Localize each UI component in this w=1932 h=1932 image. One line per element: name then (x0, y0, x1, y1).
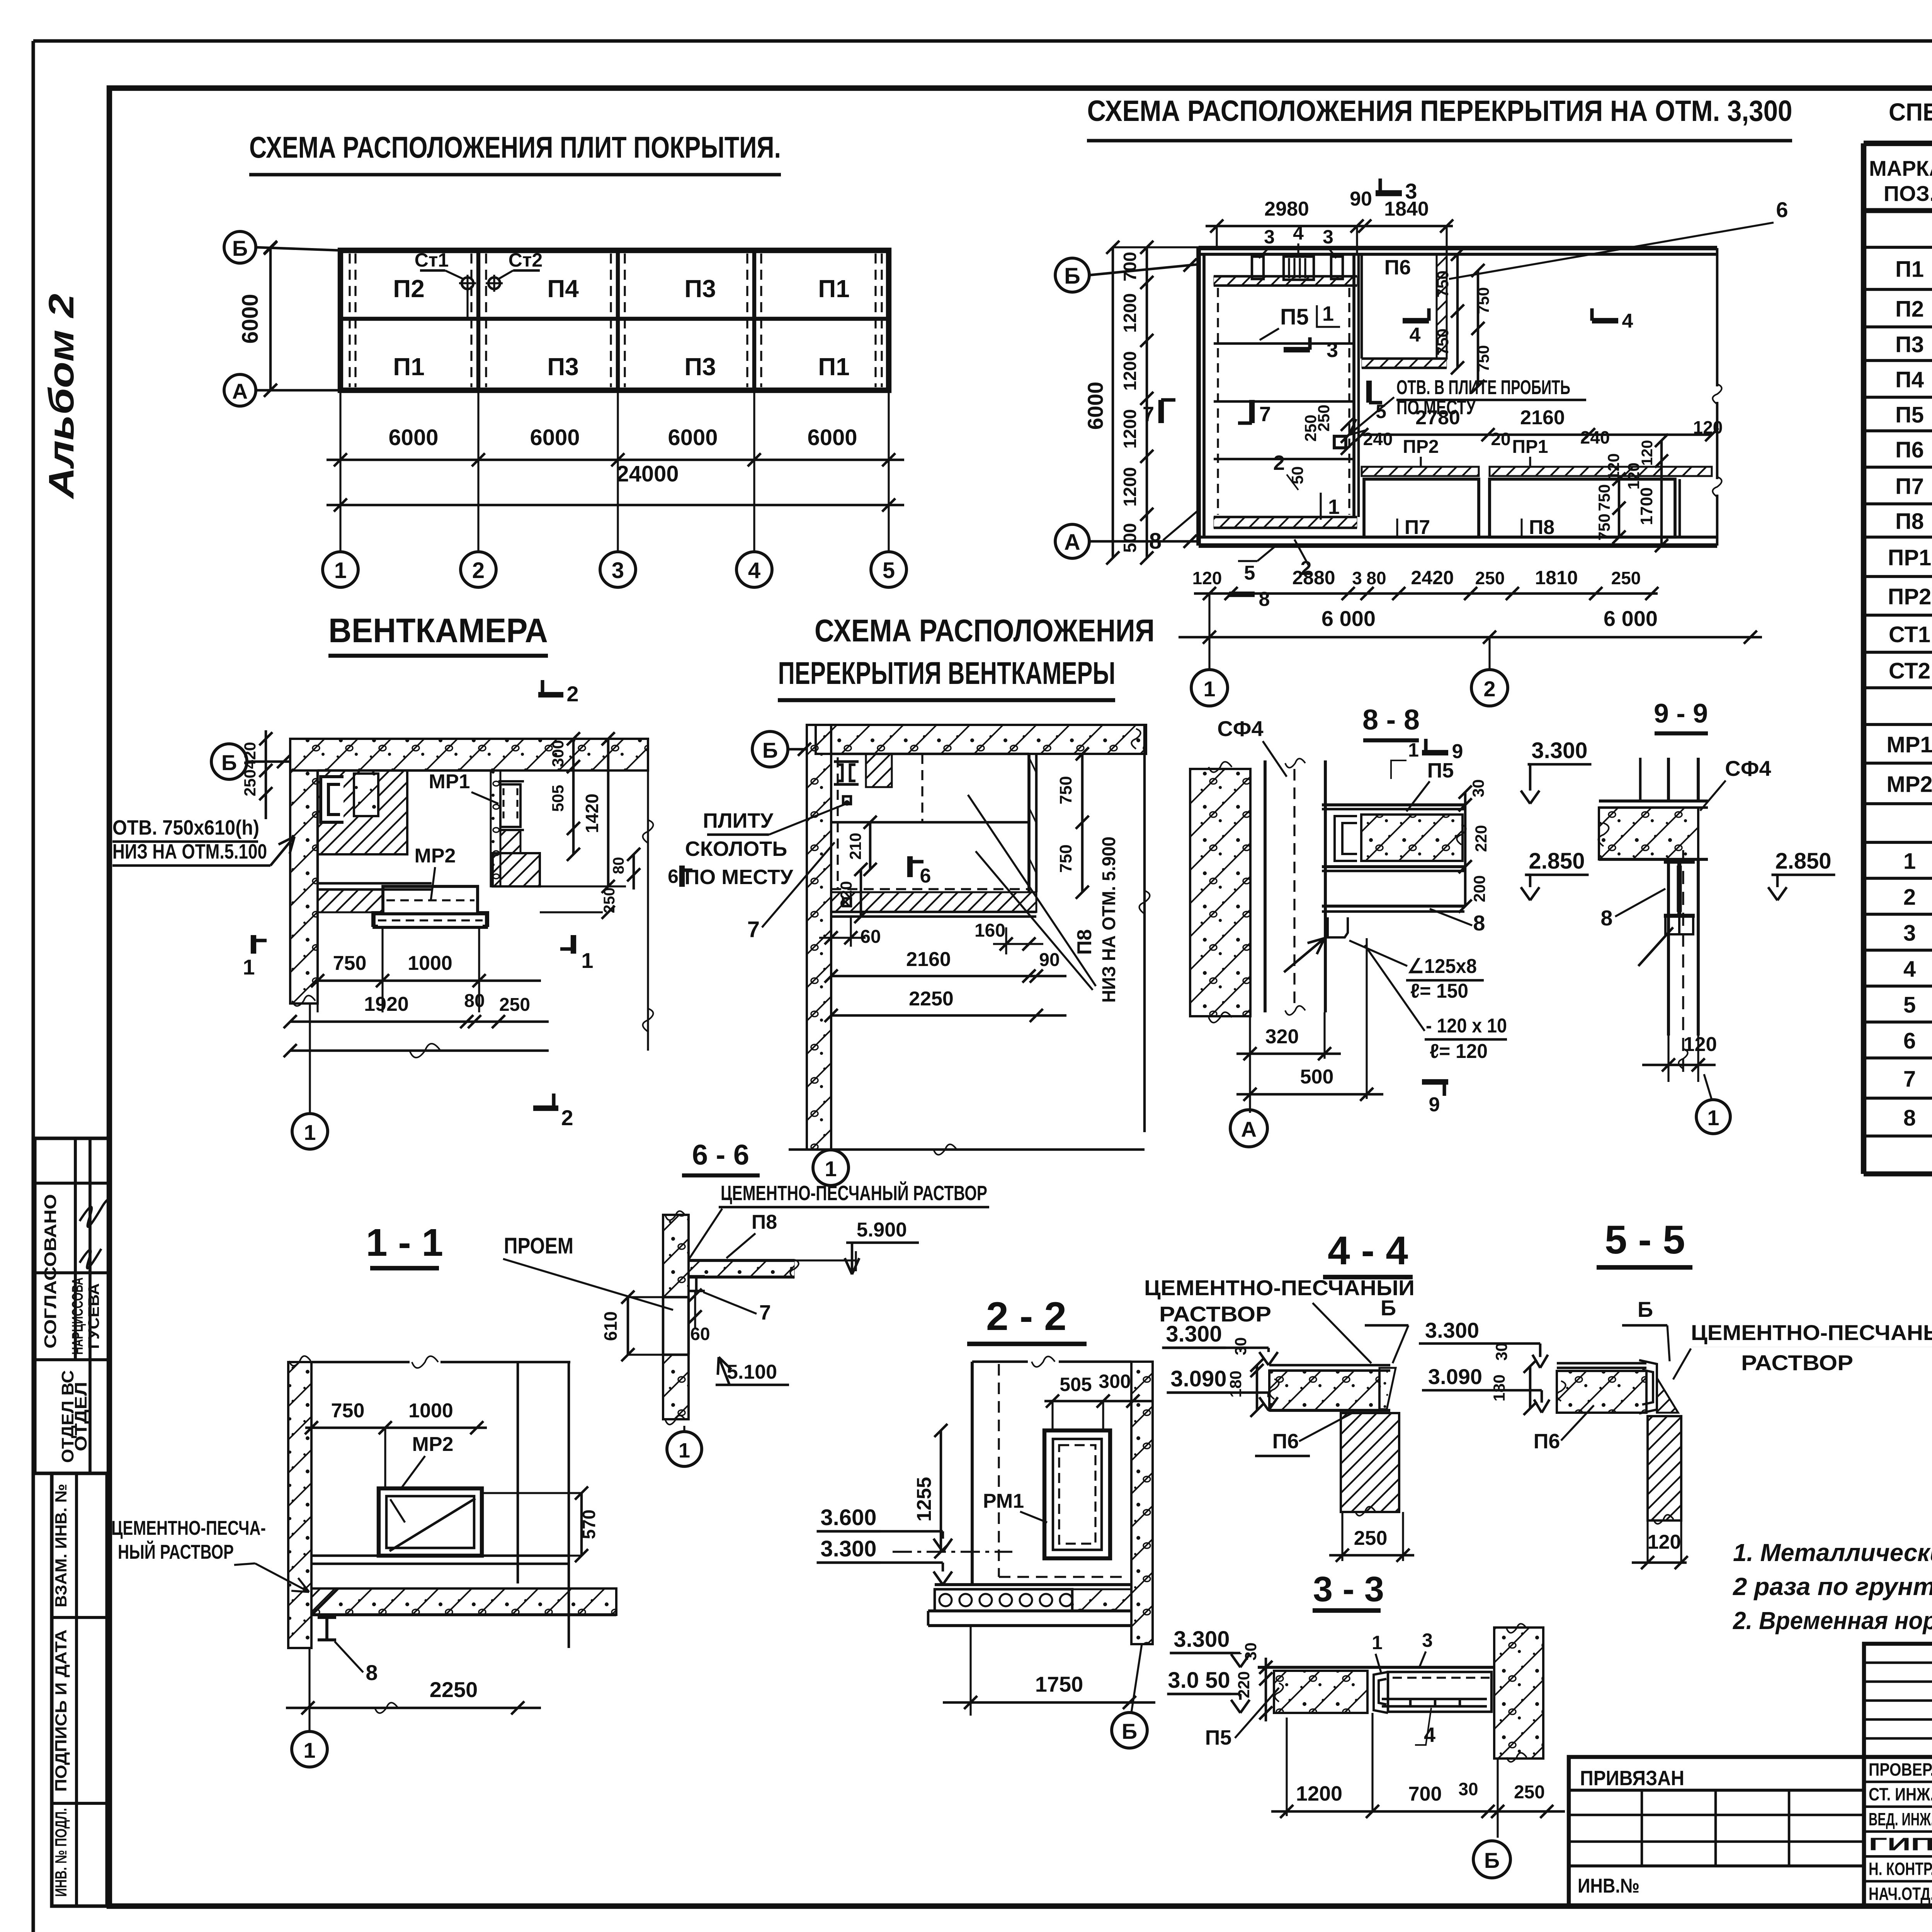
ventkamera section marks 1 (251, 935, 256, 954)
3-3 plate P17 (1388, 1672, 1492, 1712)
svg-text:250: 250 (601, 888, 618, 913)
svg-text:2: 2 (1483, 677, 1495, 701)
svg-text:180: 180 (1490, 1374, 1508, 1401)
svg-text:П5: П5 (1280, 304, 1309, 330)
svg-text:П5: П5 (1895, 403, 1924, 428)
9-9 dim 120 (1642, 1064, 1716, 1066)
svg-text:8 - 8: 8 - 8 (1362, 704, 1420, 736)
svg-text:6: 6 (920, 865, 931, 887)
svg-text:7: 7 (1143, 403, 1154, 426)
svg-text:1420: 1420 (582, 794, 602, 833)
svg-text:4: 4 (748, 558, 760, 583)
svg-text:3: 3 (1422, 1629, 1433, 1651)
svg-text:3.090: 3.090 (1428, 1364, 1482, 1389)
svg-text:2 раза по грунтовке ГФ-0119: 2 раза по грунтовке ГФ-0119 (ГООТ 23343-… (1733, 1573, 1932, 1600)
svg-text:П7: П7 (1895, 474, 1924, 499)
svg-text:П8: П8 (1895, 509, 1924, 534)
plan2 section flag 4 right (1592, 318, 1618, 323)
svg-text:320: 320 (1265, 1026, 1299, 1048)
svg-text:2. Временная нормативная наг: 2. Временная нормативная нагрузка на пли… (1733, 1607, 1932, 1634)
svg-text:2250: 2250 (909, 988, 954, 1010)
svg-text:2: 2 (561, 1105, 573, 1130)
svg-text:2160: 2160 (906, 948, 951, 971)
svg-text:80: 80 (1366, 568, 1386, 588)
9-9 column below (1667, 859, 1670, 1036)
8-8 flag 9 bottom (1422, 1079, 1448, 1085)
5-5 slab (1557, 1362, 1646, 1365)
svg-text:НЫЙ РАСТВОР: НЫЙ РАСТВОР (118, 1541, 234, 1563)
ventkamera room edges (318, 769, 493, 772)
ventkamera left dims 420 250 (265, 730, 267, 819)
svg-text:1: 1 (1903, 849, 1916, 874)
svg-text:ЦЕМЕНТНО-ПЕСЧАНЫЙ: ЦЕМЕНТНО-ПЕСЧАНЫЙ (1691, 1320, 1932, 1345)
2-2 axis dashdot (893, 1551, 1012, 1553)
2-2 left edge (971, 1362, 974, 1585)
svg-text:ПР1: ПР1 (1512, 437, 1548, 457)
plan2 grid circle 2 (1471, 670, 1508, 706)
plan2 grid circle 1 (1191, 670, 1228, 706)
svg-text:2250: 2250 (430, 1677, 478, 1702)
ventperekr P8 leaders (968, 795, 1096, 986)
svg-text:А: А (1064, 530, 1080, 555)
2-2 dim 1750 (943, 1701, 1155, 1704)
2-2 axis circle B (1112, 1713, 1147, 1748)
plan2 room P5 top band (1214, 275, 1357, 278)
svg-text:120: 120 (1192, 568, 1222, 588)
ventkamera MP2 plate (383, 886, 478, 914)
svg-text:240: 240 (1580, 427, 1610, 447)
svg-text:30: 30 (1231, 1337, 1250, 1355)
ventkamera corner block right (493, 853, 540, 886)
svg-text:П5: П5 (1205, 1726, 1232, 1749)
3-3 dim chain 1200 700 30 250 (1271, 1810, 1565, 1813)
svg-text:П6: П6 (1272, 1430, 1299, 1453)
svg-text:1: 1 (304, 1120, 316, 1145)
4-4 dim 250 (1329, 1554, 1414, 1557)
svg-text:3.300: 3.300 (1531, 738, 1587, 763)
svg-text:3: 3 (1903, 921, 1916, 946)
plan2 axis circle A (1055, 524, 1089, 558)
svg-text:СТ1: СТ1 (1889, 622, 1930, 647)
svg-text:1810: 1810 (1535, 567, 1578, 588)
ventperekr dim 2250 (831, 1014, 1066, 1017)
svg-text:5: 5 (1244, 562, 1255, 584)
svg-text:5.900: 5.900 (857, 1219, 907, 1241)
svg-text:1: 1 (1408, 739, 1419, 761)
ventperekr left wall (807, 725, 831, 1150)
svg-text:570: 570 (579, 1510, 599, 1539)
ventkamera right wall strip (491, 770, 500, 886)
ventkamera axis circle B (211, 744, 247, 779)
svg-text:П4: П4 (1895, 367, 1924, 393)
3-3 right wall band (1494, 1628, 1543, 1759)
svg-text:НИЗ НА ОТМ.5.100: НИЗ НА ОТМ.5.100 (112, 840, 267, 863)
svg-text:120: 120 (1684, 1033, 1717, 1056)
plan1 dim 24000 (327, 504, 904, 507)
plan2 room P5 joint dashes (1217, 288, 1219, 515)
svg-text:СПЕЦИФИКАЦИЯ К СХЕМАМ РАСПО: СПЕЦИФИКАЦИЯ К СХЕМАМ РАСПОЛОЖЕНИЯ ПЛИТ … (1889, 98, 1932, 126)
svg-text:30: 30 (1242, 1643, 1260, 1661)
svg-text:СХЕМА РАСПОЛОЖЕНИЯ: СХЕМА РАСПОЛОЖЕНИЯ (815, 613, 1155, 648)
plan1 dim row 6000x4 (327, 459, 904, 461)
svg-text:Ст1: Ст1 (415, 249, 449, 271)
svg-text:ПОЗ.: ПОЗ. (1884, 181, 1932, 206)
4-4 slab (1269, 1364, 1390, 1367)
1-1 window dim 570 (580, 1493, 583, 1556)
svg-text:СКОЛОТЬ: СКОЛОТЬ (685, 837, 787, 861)
ventkamera bottom edge lines (318, 882, 432, 885)
6-6 I-beam (688, 1275, 705, 1278)
ventperekr flag 6 (907, 856, 913, 877)
ventperekr bottom band (831, 892, 1036, 912)
svg-text:ИНВ.№: ИНВ.№ (1578, 1875, 1639, 1897)
svg-text:1: 1 (1322, 302, 1334, 325)
ventkamera right ext line (647, 739, 649, 1051)
svg-text:5: 5 (883, 558, 895, 583)
svg-text:1. Металлические конструкции: 1. Металлические конструкции окрасить ма… (1733, 1539, 1932, 1566)
svg-text:1000: 1000 (408, 1400, 453, 1422)
svg-text:3: 3 (1352, 568, 1362, 588)
plan2 section flag 4 left (1403, 318, 1429, 323)
ventkamera big corner block (318, 770, 407, 854)
svg-text:9 - 9: 9 - 9 (1654, 698, 1708, 728)
svg-text:750: 750 (1595, 514, 1613, 541)
8-8 axis circle A (1230, 1110, 1267, 1147)
svg-text:700: 700 (1408, 1783, 1442, 1805)
ventkamera left wall (290, 770, 318, 1003)
ventkamera dims 1920 80 250 (290, 1020, 549, 1023)
svg-text:120: 120 (1693, 417, 1723, 437)
2-2 floor slab (935, 1583, 1131, 1586)
svg-text:9: 9 (1452, 740, 1463, 763)
svg-text:П3: П3 (684, 353, 716, 381)
svg-text:6: 6 (668, 866, 679, 887)
svg-text:Б: Б (1484, 1848, 1500, 1872)
svg-text:ВЕНТКАМЕРА: ВЕНТКАМЕРА (328, 611, 548, 650)
svg-text:ЦЕМЕНТНО-ПЕСЧА-: ЦЕМЕНТНО-ПЕСЧА- (111, 1517, 266, 1539)
svg-text:90: 90 (1039, 950, 1060, 970)
1-1 mortar wedge (311, 1588, 338, 1615)
svg-text:6000: 6000 (668, 425, 718, 450)
5-5 wall below (1648, 1416, 1681, 1520)
svg-text:ℓ= 120: ℓ= 120 (1430, 1040, 1488, 1063)
svg-text:ПО МЕСТУ: ПО МЕСТУ (684, 866, 793, 889)
9-9 I-beam (1664, 860, 1695, 864)
svg-text:П8: П8 (1073, 929, 1096, 955)
svg-text:МР2: МР2 (1886, 772, 1932, 797)
svg-text:6 - 6: 6 - 6 (692, 1139, 749, 1171)
svg-text:4: 4 (1622, 310, 1633, 332)
svg-text:ПОДПИСЬ И ДАТА: ПОДПИСЬ И ДАТА (52, 1629, 70, 1792)
svg-text:1: 1 (334, 558, 347, 583)
svg-text:750: 750 (1056, 776, 1075, 804)
svg-text:1700: 1700 (1637, 487, 1656, 525)
1-1 dim 2250 (286, 1707, 541, 1709)
plan1 plate joints dashed (349, 253, 350, 387)
svg-text:3.300: 3.300 (1425, 1318, 1479, 1342)
9-9 bracket (1665, 916, 1693, 934)
8-8 P5 channel (1335, 816, 1357, 861)
svg-text:3.600: 3.600 (820, 1505, 876, 1530)
svg-text:1: 1 (679, 1439, 690, 1462)
plan2 rooms P7 P8 (1364, 479, 1479, 537)
svg-text:5: 5 (1903, 993, 1916, 1018)
svg-text:СТ2: СТ2 (1889, 658, 1930, 684)
svg-text:6000: 6000 (807, 425, 857, 450)
plan1 bay dividers (476, 250, 480, 390)
2-2 top squiggle line (972, 1361, 1028, 1363)
1-1 top line (311, 1361, 410, 1364)
svg-text:6000: 6000 (1083, 382, 1107, 430)
svg-text:300: 300 (549, 740, 567, 767)
svg-text:ОТВ. 750х610(h): ОТВ. 750х610(h) (112, 816, 259, 839)
2-2 slab bottom (927, 1611, 930, 1626)
svg-text:1 - 1: 1 - 1 (366, 1221, 443, 1264)
svg-text:П1: П1 (1895, 257, 1924, 282)
plan2 otv opening (1334, 436, 1346, 448)
svg-text:120: 120 (1604, 453, 1622, 480)
svg-text:1: 1 (1372, 1632, 1383, 1653)
ventperekr grid circle 1 (813, 1150, 849, 1185)
8-8 column lines (1264, 760, 1267, 1012)
2-2 window RM1 (1044, 1430, 1110, 1558)
1-1 floor slab (311, 1588, 616, 1615)
svg-text:8: 8 (1600, 906, 1612, 930)
svg-text:7: 7 (1259, 403, 1271, 426)
plan1 axis circle A (224, 374, 256, 406)
svg-text:1200: 1200 (1120, 467, 1140, 507)
8-8 bottom slab (1322, 905, 1464, 908)
svg-text:60: 60 (690, 1324, 710, 1344)
svg-text:2: 2 (472, 558, 485, 583)
svg-text:СФ4: СФ4 (1725, 756, 1771, 781)
svg-text:250: 250 (1354, 1527, 1388, 1549)
ventperekr room edges (831, 753, 1029, 755)
svg-text:6000: 6000 (238, 294, 263, 344)
svg-text:750: 750 (331, 1400, 365, 1422)
svg-text:1: 1 (303, 1738, 315, 1762)
8-8 dim 320 (1236, 1053, 1341, 1055)
svg-text:24000: 24000 (616, 461, 679, 486)
svg-text:1200: 1200 (1120, 351, 1140, 391)
svg-text:2420: 2420 (1411, 567, 1454, 588)
svg-text:П6: П6 (1534, 1430, 1560, 1453)
svg-text:РМ1: РМ1 (983, 1490, 1024, 1512)
svg-text:8: 8 (1473, 911, 1485, 935)
svg-text:СОГЛАСОВАНО: СОГЛАСОВАНО (41, 1194, 60, 1349)
svg-text:80: 80 (610, 857, 627, 874)
svg-text:4 - 4: 4 - 4 (1328, 1228, 1408, 1273)
svg-text:20: 20 (1491, 429, 1510, 449)
svg-text:ГИП: ГИП (1869, 1834, 1932, 1854)
left stamp signature squiggle (80, 1199, 109, 1226)
svg-text:А: А (1241, 1117, 1257, 1141)
ventkamera section mark 6 (679, 866, 685, 887)
6-6 grid circle 1 (683, 1426, 685, 1432)
left stamp lower box (52, 1473, 107, 1906)
ventperekr MP channel (834, 762, 859, 784)
svg-text:5 - 5: 5 - 5 (1605, 1218, 1685, 1262)
6-6 wall upper (663, 1215, 689, 1297)
svg-text:180: 180 (1226, 1371, 1245, 1398)
ventkamera concrete inset (354, 774, 378, 816)
6-6 wall lower (663, 1355, 689, 1419)
svg-text:П2: П2 (393, 275, 425, 303)
svg-text:2.850: 2.850 (1529, 849, 1585, 874)
6-6 wall proem gap (662, 1297, 665, 1355)
plan2 right dims 750 750 (1618, 479, 1621, 537)
svg-text:Б: Б (221, 750, 237, 775)
svg-text:8: 8 (366, 1660, 378, 1685)
svg-text:П4: П4 (547, 275, 579, 303)
plan2 bottom wall (1199, 536, 1717, 539)
svg-text:5: 5 (1376, 401, 1386, 422)
svg-text:П8: П8 (752, 1211, 777, 1233)
svg-text:505: 505 (549, 785, 567, 812)
svg-text:ВЕД. ИНЖ.: ВЕД. ИНЖ. (1869, 1809, 1932, 1829)
svg-text:ГУСЕВА: ГУСЕВА (85, 1283, 102, 1349)
svg-text:420: 420 (241, 742, 259, 769)
svg-text:3.090: 3.090 (1170, 1366, 1226, 1391)
ventkamera protruding plate (374, 914, 486, 927)
svg-text:610: 610 (600, 1311, 621, 1341)
9-9 column top (1667, 758, 1670, 801)
svg-text:НИЗ НА ОТМ. 5.900: НИЗ НА ОТМ. 5.900 (1099, 837, 1119, 1003)
plan2 room P5 joints (1214, 342, 1354, 345)
plan2 section 7-7 cut flags (1158, 400, 1164, 423)
svg-text:ПЛИТУ: ПЛИТУ (703, 809, 774, 832)
1-1 wall band (288, 1362, 311, 1648)
svg-text:3: 3 (1323, 226, 1333, 248)
4-4 wall below (1341, 1413, 1399, 1512)
ventperekr axis circle B (752, 731, 788, 767)
svg-text:120: 120 (1639, 440, 1656, 466)
8-8 wall band (1190, 769, 1250, 1016)
svg-text:1: 1 (581, 948, 593, 973)
plan2 dim 6000 6000 bottom (1179, 636, 1762, 639)
svg-text:П2: П2 (1895, 297, 1924, 322)
svg-text:1200: 1200 (1120, 293, 1140, 333)
svg-text:2: 2 (1903, 885, 1916, 910)
svg-text:750: 750 (1056, 844, 1075, 872)
svg-text:1920: 1920 (364, 993, 409, 1015)
svg-text:7: 7 (747, 917, 760, 942)
svg-text:РАСТВОР: РАСТВОР (1741, 1350, 1853, 1375)
8-8 P5 hatch block (1361, 815, 1463, 861)
svg-text:750: 750 (1474, 287, 1492, 314)
privyazan block (1569, 1757, 1864, 1906)
ventkamera MP1 frame (500, 784, 520, 827)
svg-text:750: 750 (1595, 484, 1613, 511)
6-6 dim 60 (694, 1290, 696, 1328)
plan2 room P6 (1361, 254, 1363, 359)
2-2 right wall band (1131, 1362, 1153, 1644)
svg-text:60: 60 (860, 927, 881, 947)
svg-text:30: 30 (1492, 1343, 1510, 1361)
ventkamera MP1 lower hatch (500, 830, 520, 853)
plan2 building edge break (1716, 248, 1719, 386)
3-3 channel (1374, 1672, 1388, 1713)
svg-text:220: 220 (1472, 825, 1490, 852)
ventkamera right dims 80 250 (633, 854, 635, 889)
8-8 dim 500 (1236, 1093, 1383, 1096)
plan2 section flag 3 inner (1284, 347, 1310, 352)
9-9 slab bottom line (1599, 858, 1708, 861)
ventperekr anchors (843, 796, 851, 804)
title block small grid (1864, 1644, 1932, 1757)
8-8 corner bracket (1328, 917, 1348, 937)
svg-text:2: 2 (566, 682, 578, 706)
svg-text:8: 8 (1149, 529, 1162, 554)
left stamp upper box (35, 1138, 109, 1473)
svg-text:250: 250 (1514, 1782, 1545, 1803)
svg-text:1: 1 (1328, 495, 1340, 519)
svg-text:П5: П5 (1427, 759, 1454, 782)
svg-text:250: 250 (1475, 568, 1505, 588)
plan2 axis circle B (1055, 258, 1089, 292)
8-8 top slab (1322, 803, 1464, 806)
ventkamera grid circle 1 (292, 1114, 328, 1149)
svg-text:Б: Б (1064, 264, 1080, 289)
svg-text:3: 3 (1327, 338, 1338, 362)
svg-text:Н. КОНТР.: Н. КОНТР. (1869, 1859, 1932, 1879)
svg-text:6: 6 (1776, 197, 1788, 222)
8-8 flag 9 top (1422, 750, 1448, 755)
svg-text:3.0 50: 3.0 50 (1168, 1668, 1230, 1693)
svg-text:Б: Б (1122, 1719, 1137, 1743)
8-8 dims 30 220 200 (1464, 792, 1467, 805)
svg-text:2 - 2: 2 - 2 (986, 1294, 1066, 1339)
svg-text:30: 30 (1469, 779, 1487, 798)
svg-text:3.300: 3.300 (1166, 1321, 1222, 1347)
9-9 grid circle 1 (1696, 1100, 1730, 1134)
plan2 P6 right dims 750 (1456, 254, 1459, 368)
svg-text:ВЗАМ. ИНВ. №: ВЗАМ. ИНВ. № (52, 1484, 70, 1607)
8-8 slab mid lines (1322, 865, 1464, 868)
ventperekr room lines (1027, 754, 1031, 892)
svg-text:- 120 х 10: - 120 х 10 (1426, 1015, 1507, 1037)
plan2 right dims 120 1700 (1660, 440, 1663, 546)
svg-text:ПР1: ПР1 (1888, 545, 1932, 570)
ventperekr right boundary (1143, 725, 1146, 1132)
1-1 right verticals (517, 1362, 519, 1583)
plan1 extension lines down (339, 390, 341, 552)
svg-text:Альбом 2: Альбом 2 (42, 294, 81, 499)
svg-text:П3: П3 (547, 353, 579, 381)
svg-text:П3: П3 (1895, 332, 1924, 357)
1-1 window frame (379, 1488, 482, 1556)
svg-text:750: 750 (1474, 345, 1492, 372)
svg-text:2780: 2780 (1415, 406, 1460, 429)
4-4 mortar wedge (1379, 1368, 1396, 1409)
plan2 top dim chain 2980 90 1840 (1206, 225, 1453, 228)
svg-text:210: 210 (846, 833, 864, 860)
svg-text:1: 1 (243, 955, 255, 979)
plan2 dim 6000 vertical (1112, 247, 1114, 558)
3-3 axis circle B (1473, 1841, 1510, 1878)
ventkamera dims 750 1000 (315, 980, 541, 982)
ventperekr dims 750 750 (1081, 754, 1084, 892)
svg-text:3: 3 (1405, 179, 1417, 203)
title block person rows (1864, 1757, 1932, 1906)
plan2 left wall (1196, 248, 1201, 546)
sheet outer border (33, 39, 1932, 43)
svg-text:700: 700 (1120, 252, 1140, 282)
svg-text:П7: П7 (1405, 516, 1430, 539)
svg-text:3.300: 3.300 (1173, 1627, 1230, 1652)
plan2 bottom dim chain (1194, 592, 1658, 595)
svg-text:СХЕМА РАСПОЛОЖЕНИЯ ПЛИТ ПОКРЫ: СХЕМА РАСПОЛОЖЕНИЯ ПЛИТ ПОКРЫТИЯ. (249, 130, 781, 164)
